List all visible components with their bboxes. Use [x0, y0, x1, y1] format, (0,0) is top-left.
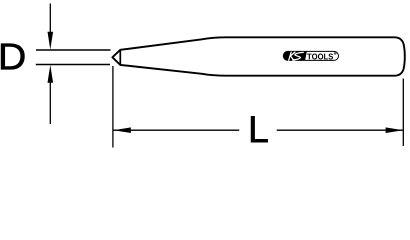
dimension label L	[251, 116, 268, 142]
L dimension line left segment with arrow	[113, 127, 239, 133]
lower dimension arrow of D (pointing up)	[48, 65, 54, 124]
bottom extension line of D	[36, 64, 110, 66]
upper dimension arrow of D (pointing down)	[48, 4, 54, 50]
logo registered mark	[334, 52, 337, 55]
left extension line of L	[112, 66, 114, 148]
dimension label D	[1, 44, 24, 70]
logo KS black pill	[283, 51, 307, 60]
logo outline (stadium)	[283, 51, 338, 60]
L dimension line right segment with arrow	[277, 127, 404, 133]
punch body outline	[112, 37, 404, 75]
right extension line of L	[402, 79, 404, 147]
logo KS text (stylized white italic K and S)	[289, 52, 304, 60]
punch tip base line	[119, 50, 121, 65]
logo TOOLS text	[307, 54, 333, 60]
top extension line of D	[36, 49, 111, 51]
